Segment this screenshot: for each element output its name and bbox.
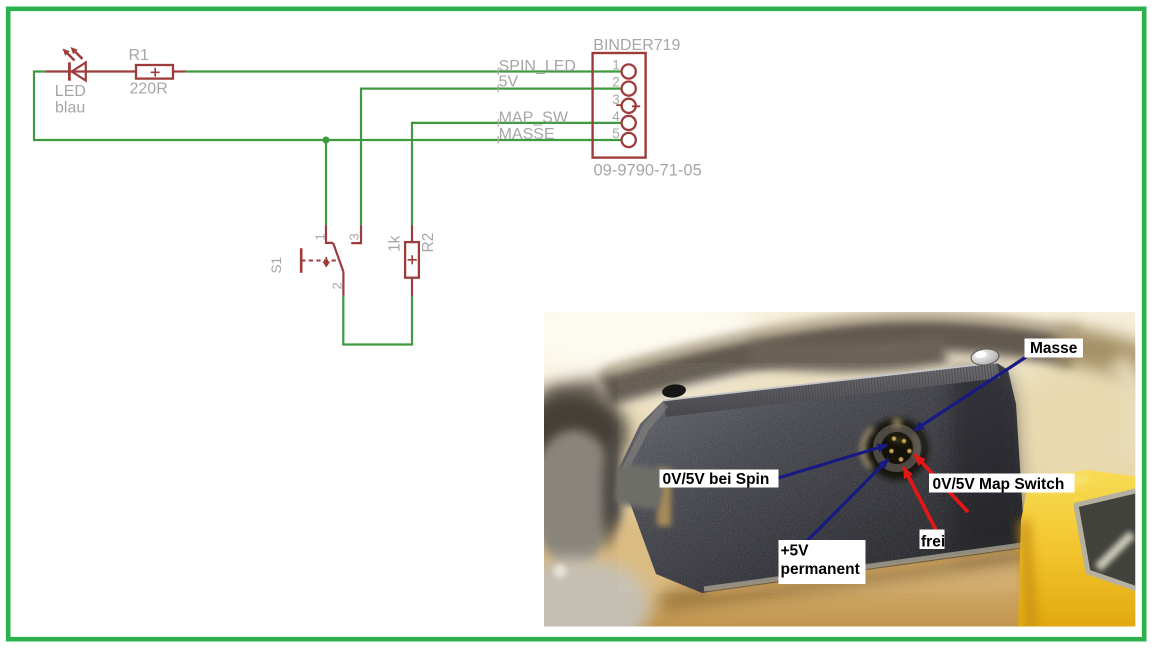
svg-text:0V/5V bei Spin: 0V/5V bei Spin <box>663 471 770 488</box>
svg-text:R2: R2 <box>420 233 437 253</box>
svg-text:MAP_SW: MAP_SW <box>499 109 569 126</box>
svg-text:Masse: Masse <box>1030 340 1078 357</box>
svg-text:R1: R1 <box>129 47 150 64</box>
svg-text:5: 5 <box>612 126 620 141</box>
svg-text:3: 3 <box>612 92 620 107</box>
svg-text:frei: frei <box>921 534 945 551</box>
svg-text:permanent: permanent <box>781 561 860 578</box>
svg-text:S1: S1 <box>269 257 284 274</box>
svg-text:4: 4 <box>612 109 620 124</box>
svg-text:1: 1 <box>313 233 328 240</box>
svg-text:LED: LED <box>55 83 86 100</box>
svg-text:MASSE: MASSE <box>499 126 555 143</box>
svg-text:1k: 1k <box>387 235 404 252</box>
svg-text:BINDER719: BINDER719 <box>593 37 680 54</box>
svg-text:blau: blau <box>55 100 85 117</box>
svg-text:+5V: +5V <box>781 543 810 560</box>
svg-text:2: 2 <box>612 75 620 90</box>
svg-text:3: 3 <box>347 233 362 240</box>
svg-text:0V/5V Map Switch: 0V/5V Map Switch <box>933 476 1065 493</box>
svg-text:09-9790-71-05: 09-9790-71-05 <box>594 162 702 180</box>
svg-text:220R: 220R <box>130 81 168 98</box>
svg-text:5V: 5V <box>499 74 519 91</box>
svg-text:2: 2 <box>330 282 345 289</box>
svg-text:1: 1 <box>612 58 620 73</box>
